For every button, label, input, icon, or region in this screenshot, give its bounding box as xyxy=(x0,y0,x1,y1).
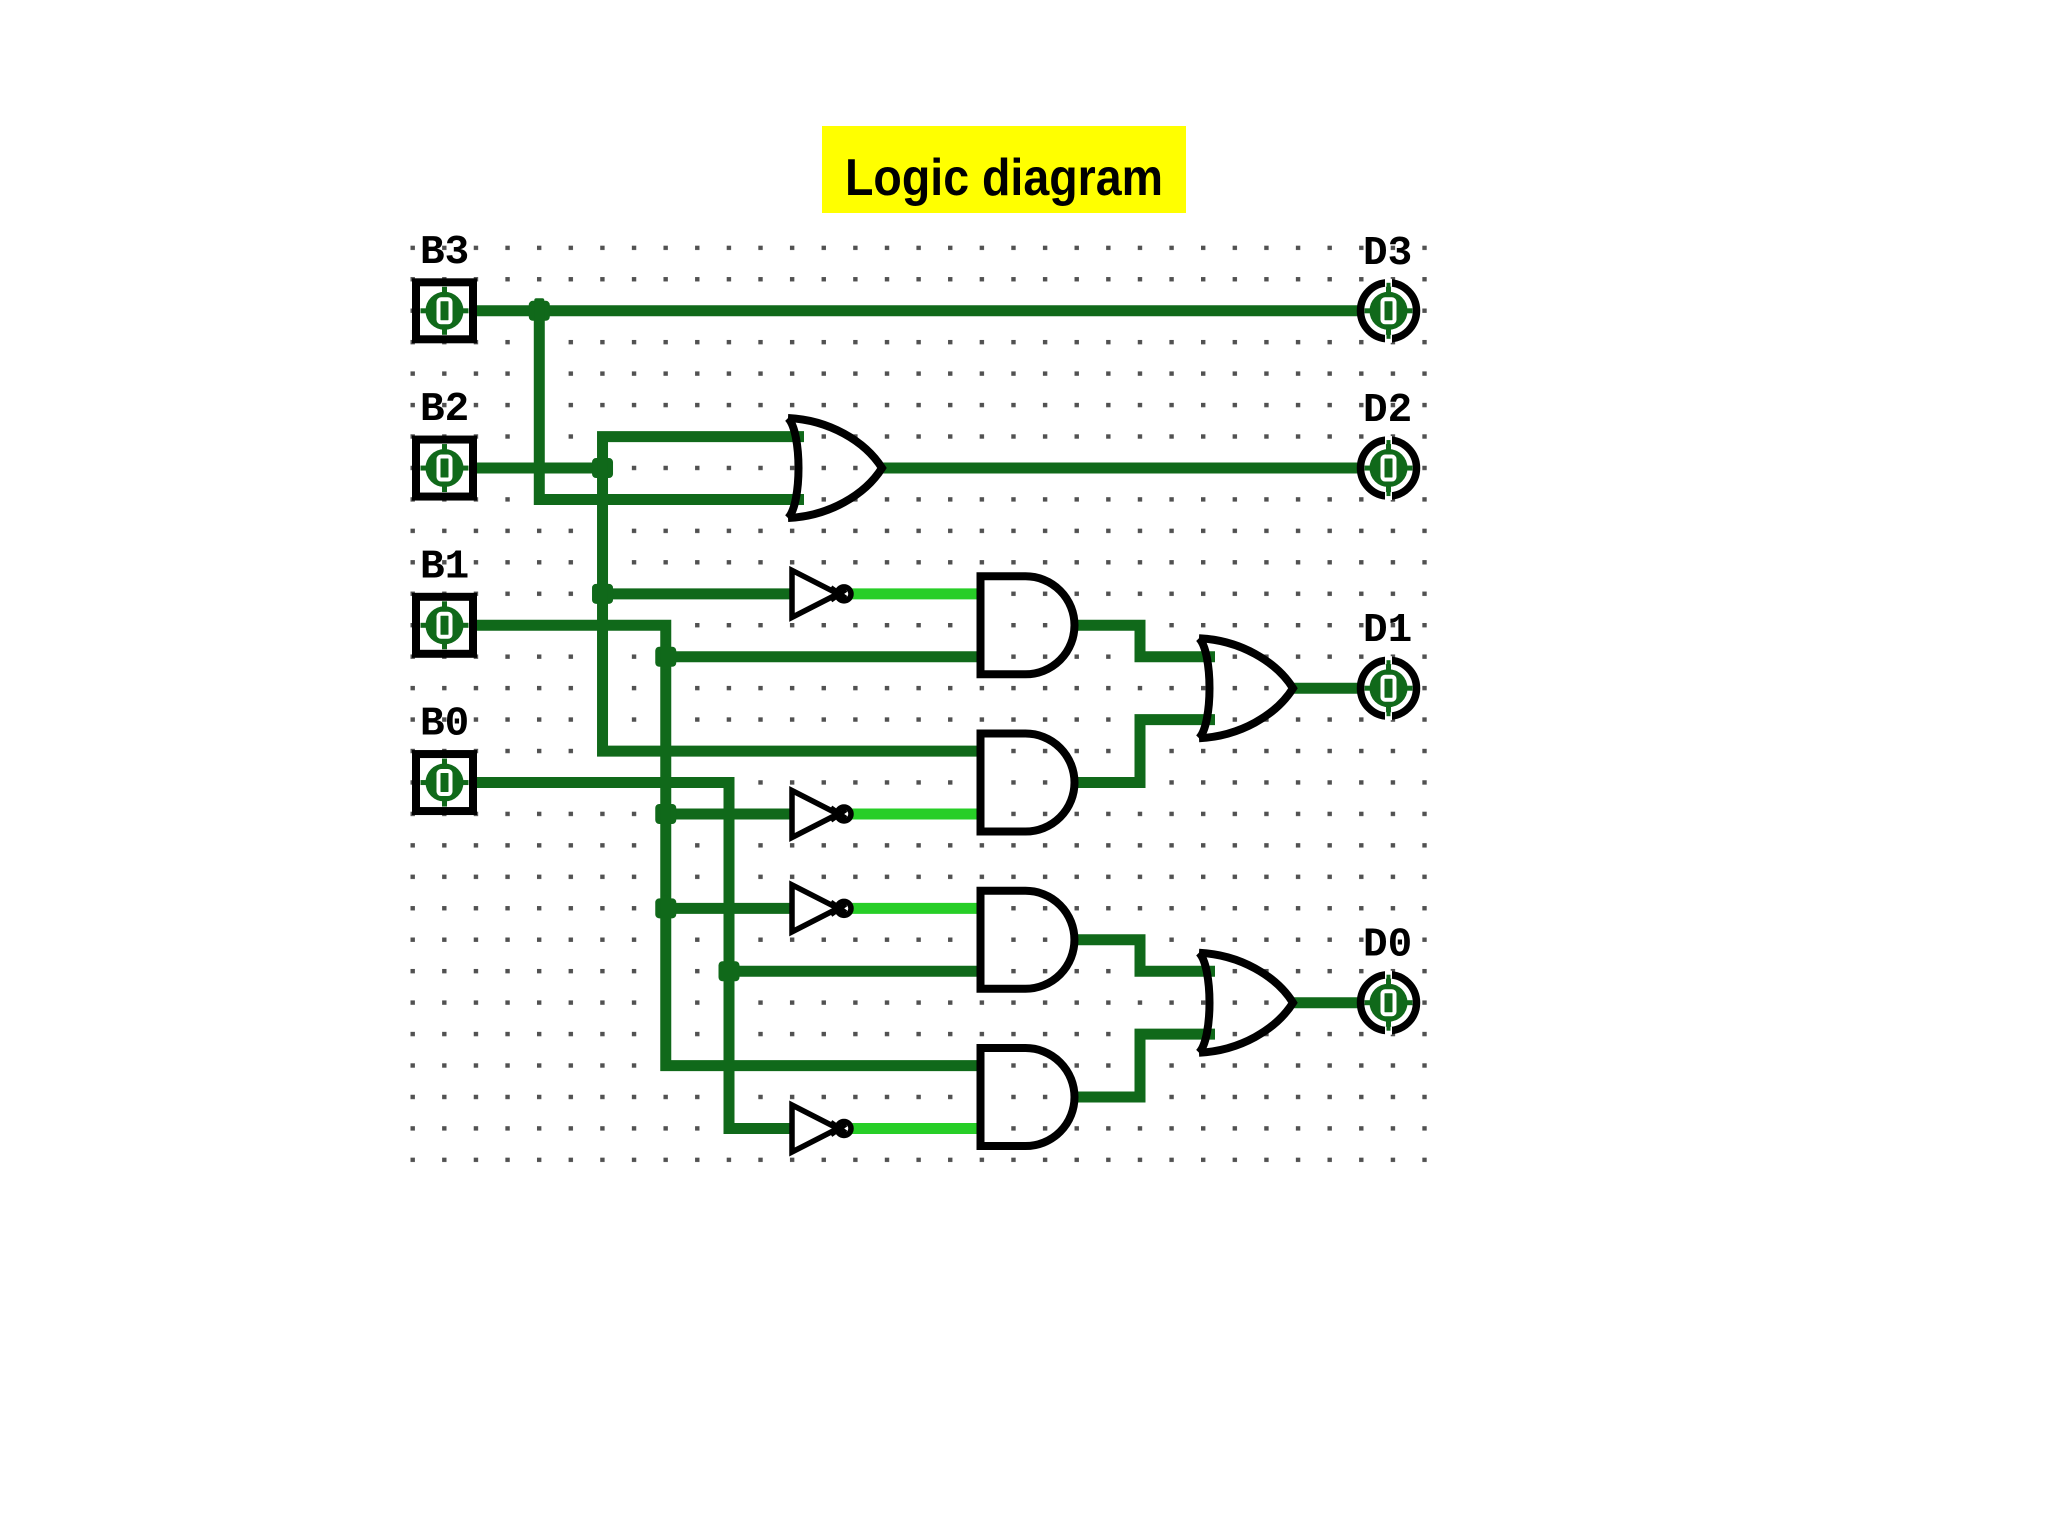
svg-text:B0: B0 xyxy=(420,702,469,748)
svg-text:B3: B3 xyxy=(420,230,469,276)
svg-text:D2: D2 xyxy=(1363,388,1412,434)
svg-text:D0: D0 xyxy=(1363,923,1412,969)
svg-text:B2: B2 xyxy=(420,387,469,433)
svg-text:B1: B1 xyxy=(420,544,469,590)
svg-text:D3: D3 xyxy=(1363,231,1412,277)
svg-text:Logic diagram: Logic diagram xyxy=(845,149,1163,207)
svg-text:D1: D1 xyxy=(1363,608,1412,654)
